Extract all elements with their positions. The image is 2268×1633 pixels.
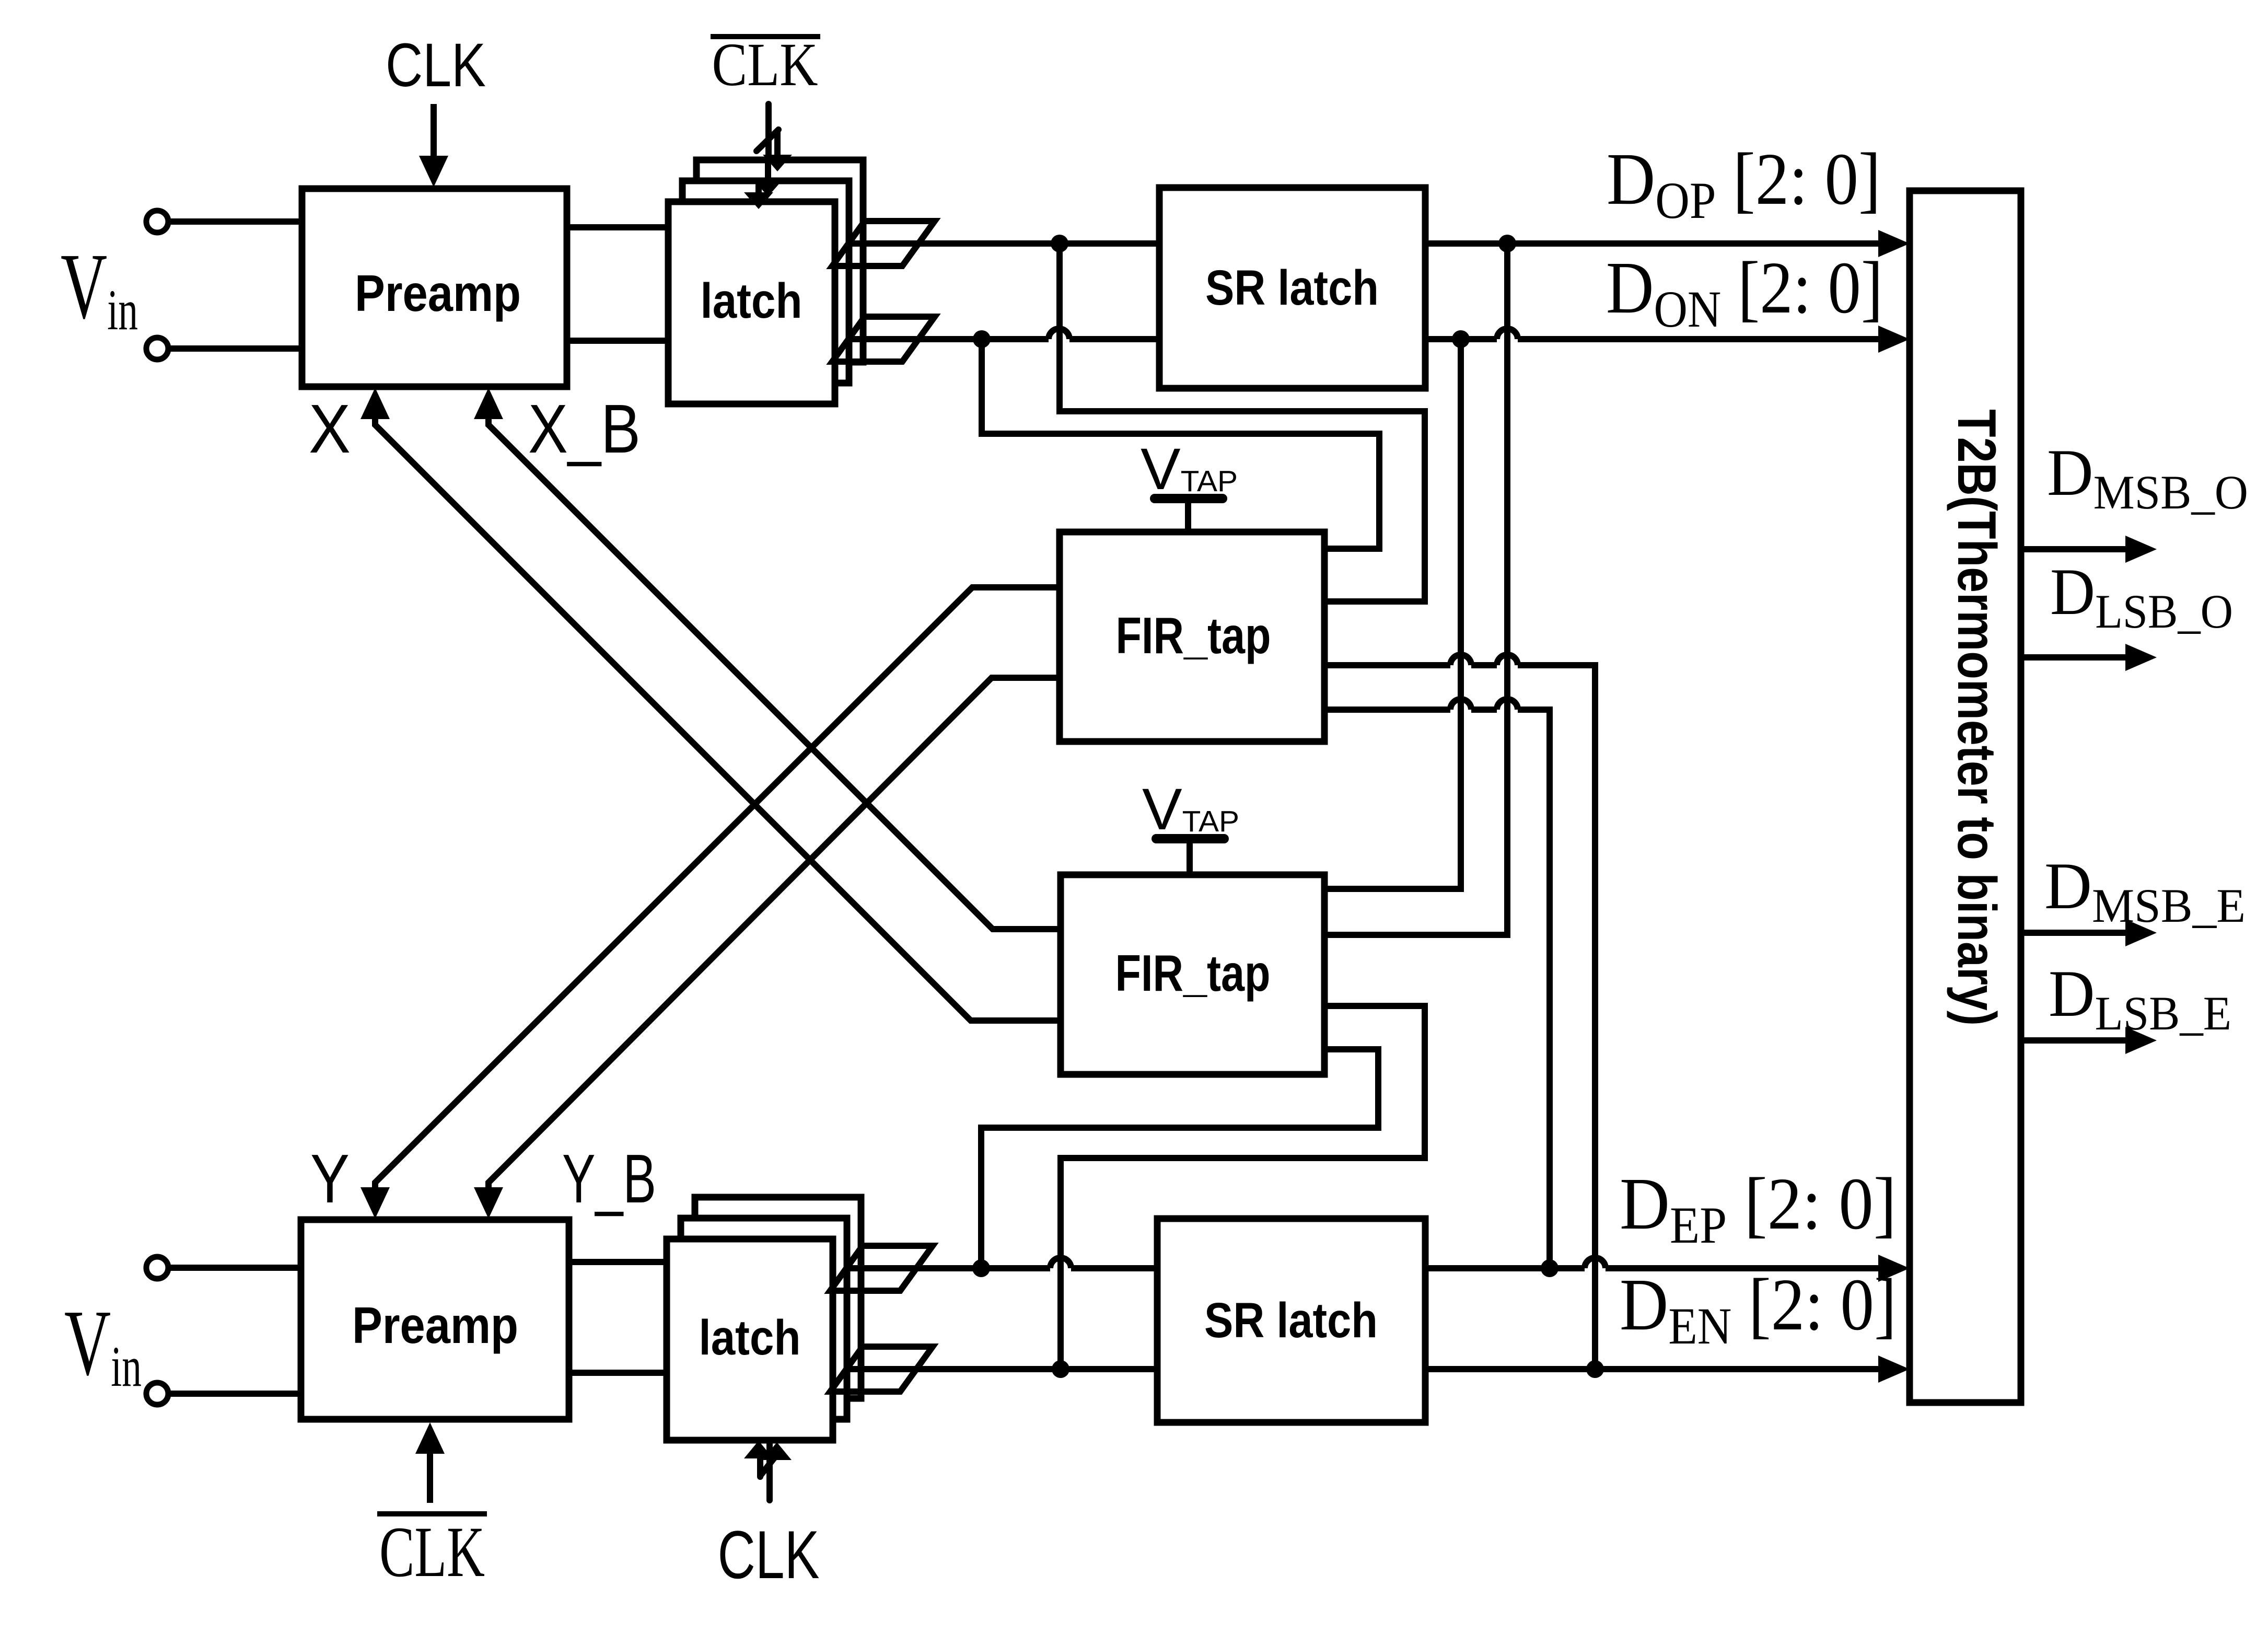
svg-text:FIR_tap: FIR_tap (1116, 607, 1271, 664)
wire DEP: SR latch U8 to T2B (hop at 3053) (1425, 1265, 1879, 1271)
wire CLKB into latch U2 (with jog) (757, 104, 778, 193)
arrowhead CLK into preamp U1 (419, 156, 448, 187)
wire T2B output DLSB_O (2021, 654, 2126, 661)
wire FIR_tap U4 out4 to DEP (hops at 2796,2885) (1324, 710, 1550, 1268)
wire DON: latch U2 to SR latch U3 (hop at x2027) (846, 336, 1159, 342)
wire VTAP stem into FIR_tap U5 (1187, 842, 1193, 875)
bus flag latch U7 upper output (830, 1246, 933, 1291)
wire DON feedback to FIR_tap U4 input1 (982, 339, 1379, 549)
wire preamp U1 out+ to latch U2 (567, 224, 668, 230)
input terminal vin- (bottom) (146, 1383, 168, 1405)
svg-text:SR latch: SR latch (1205, 260, 1379, 316)
arrowhead output DLSB_O (2125, 644, 2157, 671)
arrowhead X into preamp U1 (360, 388, 390, 419)
hop DEP over DEN vertical (1585, 1258, 1606, 1268)
junction dot latch U7 upper out (972, 1259, 990, 1277)
wire DON right junction down to FIR_tap U5 (1324, 339, 1461, 889)
svg-text:X_B: X_B (528, 390, 641, 467)
arrowhead output DLSB_E (2125, 1027, 2157, 1054)
preamp U6 (bottom) (301, 1220, 569, 1419)
svg-text:DEP [2: 0]: DEP [2: 0] (1620, 1162, 1897, 1254)
wire vin+ terminal to preamp U1 (168, 218, 302, 225)
wire T2B output DLSB_E (2021, 1037, 2126, 1044)
input terminal vin- (top) (146, 338, 168, 360)
svg-text:CLK: CLK (718, 1516, 820, 1593)
junction dot DON left (973, 330, 991, 348)
wire DOP: SR latch U3 to T2B (1425, 240, 1879, 247)
junction dot latch U7 lower out (1052, 1360, 1069, 1378)
wire VTAP stem into FIR_tap U4 (1185, 502, 1191, 532)
svg-text:X: X (309, 390, 351, 467)
svg-text:Preamp: Preamp (355, 264, 521, 322)
bus flag latch U2 lower output (832, 317, 935, 362)
wire T2B output DMSB_E (2021, 930, 2126, 936)
wire DOP: latch U2 to SR latch U3 (848, 240, 1159, 247)
wire preamp U1 out- to latch U2 (567, 338, 668, 344)
arrowhead output DMSB_E (2125, 919, 2157, 946)
SR latch U8 (bottom) (1157, 1219, 1425, 1422)
wire FIR_tap U4 out3 to DEN (hops at 2796,2885, down past DEP) (1324, 665, 1595, 1369)
wire FIR_tap U5 out4 wrap to latch U7 upper output (981, 1049, 1378, 1268)
svg-text:latch: latch (699, 1310, 801, 1365)
wire latch U7 upper out to SR latch U8 (hop at 2030) (846, 1265, 1157, 1271)
hop FIR U4 out4 over vertical 2796 (1450, 699, 1471, 710)
wire X_B from preamp U1 diagonal to FIR_tap U5 upper input (489, 418, 1061, 929)
bus flag latch U2 upper output (832, 221, 935, 266)
latch stack U2 (top, 3 stacked boxes) (668, 160, 863, 404)
hop latch U7 upper out over FIR U5 out3 vertical (1050, 1258, 1071, 1268)
label CLKB (top latch) (711, 30, 820, 99)
wire vin+ terminal to preamp U6 (168, 1265, 301, 1271)
wire DOP right junction down to FIR_tap U5 (1324, 244, 1507, 935)
hop DON over DOP-feedback vertical (1497, 329, 1518, 339)
junction dot DEP (1541, 1259, 1558, 1277)
input terminal vin+ (top) (146, 211, 168, 233)
wire vin- terminal to preamp U1 (168, 345, 302, 352)
svg-text:Preamp: Preamp (352, 1296, 518, 1354)
VTAP supply bar U5 (1156, 834, 1224, 843)
arrowhead Y into preamp U6 (360, 1187, 390, 1219)
wire preamp U6 out- to latch U7 (569, 1370, 667, 1376)
bus flag latch U7 lower output (830, 1347, 933, 1392)
svg-text:T2B(Thermometer to binary): T2B(Thermometer to binary) (1946, 409, 2007, 1026)
svg-text:DON [2: 0]: DON [2: 0] (1606, 246, 1883, 338)
svg-text:latch: latch (701, 273, 802, 329)
arrowhead DEP into T2B (1878, 1255, 1910, 1282)
hop FIR U4 out3 over vertical 2885 (1497, 655, 1518, 665)
FIR_tap U5 (lower) (1061, 875, 1324, 1074)
arrowhead CLK cluster into latch U7 (2) (762, 1442, 792, 1460)
arrowhead output DMSB_O (2125, 536, 2157, 563)
preamp U1 (top) (302, 189, 567, 387)
svg-text:FIR_tap: FIR_tap (1115, 944, 1271, 1002)
svg-text:DOP [2: 0]: DOP [2: 0] (1607, 137, 1881, 229)
svg-text:Y_B: Y_B (562, 1140, 656, 1217)
arrowhead Y_B into preamp U6 (474, 1187, 503, 1219)
latch stack U7 (bottom, 3 stacked boxes) (667, 1197, 861, 1440)
FIR_tap U4 (upper) (1060, 532, 1324, 742)
arrowhead CLKB cluster into latch U2 (3) (744, 192, 773, 209)
hop FIR U4 out4 over vertical 2885 (1497, 699, 1518, 710)
T2B thermometer-to-binary block U9 (1910, 191, 2021, 1403)
svg-text:CLK: CLK (386, 31, 486, 100)
wire latch U7 lower out to SR latch U8 (846, 1366, 1157, 1372)
wire Y_B to preamp U6 diagonal from FIR_tap U4 lower input (489, 678, 1060, 1188)
wire DON: SR latch U3 to T2B (hop at x2885) (1425, 336, 1879, 342)
arrowhead CLKB cluster into latch U2 (2) (753, 180, 783, 196)
wire CLK into latch U7 (with jog) (760, 1441, 778, 1500)
wire X from preamp U1 diagonal to FIR_tap U5 lower input (375, 418, 1061, 1021)
arrowhead DEN into T2B (1878, 1356, 1910, 1383)
hop FIR U4 out3 over vertical 2796 (1450, 655, 1471, 665)
svg-text:SR latch: SR latch (1204, 1293, 1378, 1348)
wire vin- terminal to preamp U6 (168, 1391, 301, 1397)
hop DON over X-feedback vertical (1049, 329, 1069, 339)
arrowhead X_B into preamp U1 (474, 388, 503, 419)
arrowhead CLK cluster into latch U7 (1) (744, 1441, 773, 1458)
wire FIR_tap U5 out3 wrap to latch U7 lower output (1061, 1006, 1425, 1369)
junction dot DEN (1586, 1360, 1604, 1378)
wire DEN: SR latch U8 to T2B (1425, 1366, 1879, 1372)
arrowhead CLKB cluster into latch U2 (1) (763, 155, 792, 171)
wire preamp U6 out+ to latch U7 (569, 1259, 667, 1265)
wire CLKB into preamp U6 (427, 1452, 433, 1503)
svg-text:CLK: CLK (712, 30, 818, 99)
wire CLK into preamp U1 (431, 104, 437, 157)
arrowhead DOP into T2B (1878, 230, 1910, 257)
svg-text:DEN [2: 0]: DEN [2: 0] (1620, 1263, 1897, 1355)
arrowhead CLKB into preamp U6 (415, 1422, 445, 1454)
svg-text:CLK: CLK (379, 1512, 485, 1592)
input terminal vin+ (bottom) (146, 1257, 168, 1279)
SR latch U3 (top) (1159, 188, 1425, 388)
arrowhead DON into T2B (1878, 326, 1910, 353)
svg-text:Y: Y (310, 1140, 350, 1217)
wire DOP feedback to FIR_tap U4 input2 (1060, 244, 1425, 601)
wire Y to preamp U6 diagonal from FIR_tap U4 upper input (375, 587, 1060, 1188)
junction dot DON right (1452, 330, 1470, 348)
junction dot DOP right (1498, 235, 1516, 252)
label CLKB (bottom preamp) (377, 1512, 487, 1592)
junction dot DOP left (1051, 235, 1068, 252)
VTAP supply bar U4 (1155, 494, 1223, 503)
wire T2B output DMSB_O (2021, 546, 2126, 552)
